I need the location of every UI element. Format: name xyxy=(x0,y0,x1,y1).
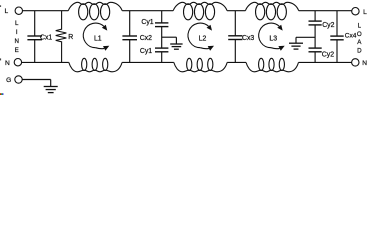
capacitor Cy2 upper xyxy=(314,11,316,21)
svg-text:Cy1: Cy1 xyxy=(141,19,153,26)
terminal L (line input) xyxy=(15,7,22,14)
ground mid xyxy=(175,37,177,44)
inductor L1 bottom winding xyxy=(69,62,122,71)
corner color mark xyxy=(0,93,1,95)
wire top rail seg2 xyxy=(122,10,173,12)
inductor L2 coupling arrow and label xyxy=(188,23,209,48)
svg-text:Cx3: Cx3 xyxy=(242,35,254,42)
edge tick top-left xyxy=(0,5,1,7)
svg-text:D: D xyxy=(357,47,362,54)
svg-text:Cx1: Cx1 xyxy=(40,34,52,41)
capacitor Cy1 upper xyxy=(161,11,163,23)
terminal L (load output) xyxy=(352,8,359,15)
inductor L3 top winding xyxy=(245,2,298,10)
svg-text:Cy1: Cy1 xyxy=(140,48,152,55)
inductor L3 coupling arrow and label xyxy=(259,23,280,48)
capacitor Cx4 xyxy=(336,11,338,36)
inductor L3 bottom winding xyxy=(246,62,299,71)
wire top rail seg3 xyxy=(227,10,245,12)
resistor R xyxy=(56,11,67,63)
svg-text:L1: L1 xyxy=(94,35,102,42)
svg-text:Cy2: Cy2 xyxy=(322,22,334,29)
svg-text:E: E xyxy=(15,47,19,54)
svg-text:N: N xyxy=(5,60,10,67)
terminal N (load output) xyxy=(352,59,359,66)
wire ground bus mid xyxy=(162,36,177,38)
svg-text:L: L xyxy=(15,20,19,27)
svg-text:Cx4: Cx4 xyxy=(345,33,357,40)
inductor L1 coupling arrow and label xyxy=(83,23,104,48)
svg-text:L: L xyxy=(4,8,8,15)
terminal N (line input) xyxy=(14,59,21,66)
wire bottom rail seg2 xyxy=(122,61,174,63)
svg-text:N: N xyxy=(362,60,367,67)
inductor L2 bottom winding xyxy=(174,62,227,71)
capacitor Cy2 lower xyxy=(314,47,316,49)
svg-text:I: I xyxy=(16,29,18,36)
svg-text:L: L xyxy=(363,9,367,16)
wire bottom rail seg1 xyxy=(22,61,69,63)
capacitor Cx1 xyxy=(34,11,36,36)
edge tick mid-left xyxy=(0,58,1,60)
ground G xyxy=(50,80,52,87)
inductor L1 top winding xyxy=(68,2,122,10)
svg-text:G: G xyxy=(6,77,11,84)
svg-text:O: O xyxy=(357,31,362,38)
wire ground bus right xyxy=(296,36,315,38)
wire G to ground xyxy=(22,79,51,81)
capacitor Cx2 xyxy=(129,11,131,36)
inductor L2 top winding xyxy=(173,2,227,10)
wire bottom rail seg3 xyxy=(227,61,246,63)
svg-text:N: N xyxy=(14,38,18,45)
svg-text:L3: L3 xyxy=(269,35,277,42)
terminal G (ground input) xyxy=(15,76,22,83)
wire bottom rail seg4 xyxy=(299,61,352,63)
capacitor Cx3 xyxy=(234,11,236,36)
svg-text:L: L xyxy=(358,22,362,29)
wire top rail seg4 xyxy=(299,10,352,12)
wire top rail seg1 xyxy=(23,10,69,12)
capacitor Cy1 lower xyxy=(161,47,163,49)
ground right xyxy=(295,37,297,43)
svg-text:L2: L2 xyxy=(199,35,207,42)
svg-text:R: R xyxy=(68,34,73,41)
svg-text:Cx2: Cx2 xyxy=(140,35,152,42)
svg-text:Cy2: Cy2 xyxy=(322,52,334,59)
